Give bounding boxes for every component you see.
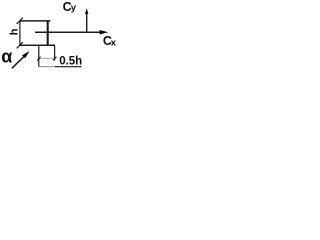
- svg-text:0.5h: 0.5h: [59, 55, 82, 67]
- svg-text:α: α: [1, 46, 12, 66]
- svg-text:x: x: [111, 38, 117, 49]
- svg-text:y: y: [71, 3, 77, 14]
- svg-text:h: h: [8, 28, 20, 35]
